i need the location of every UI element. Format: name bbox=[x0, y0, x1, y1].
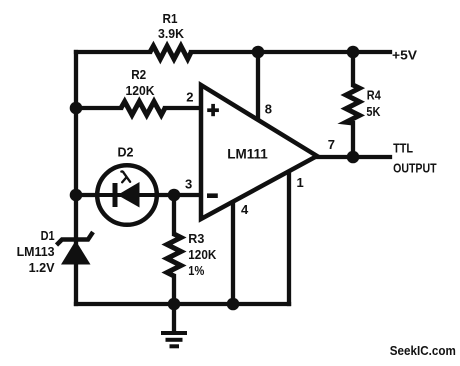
wire left vertical bus bbox=[74, 52, 78, 304]
svg-text:D1: D1 bbox=[41, 228, 55, 243]
svg-text:R3: R3 bbox=[188, 231, 204, 246]
svg-text:+5V: +5V bbox=[392, 48, 417, 63]
junction node R4 / output bbox=[347, 151, 360, 164]
wire pin 4 vertical bbox=[231, 200, 235, 304]
op-amp U1 LM111 bbox=[201, 85, 317, 219]
wire R4 bottom stub bbox=[351, 123, 355, 157]
photodiode D2 cathode bar bbox=[113, 183, 118, 207]
ground symbol bbox=[161, 331, 187, 348]
svg-text:R4: R4 bbox=[367, 88, 382, 103]
wire pin 1 vertical bbox=[287, 171, 291, 304]
svg-text:OUTPUT: OUTPUT bbox=[393, 160, 437, 175]
svg-text:R1: R1 bbox=[163, 11, 178, 26]
wire R3 top stub bbox=[172, 195, 176, 234]
wire ground stub bbox=[172, 304, 176, 331]
resistor R1 bbox=[150, 46, 191, 59]
svg-text:R2: R2 bbox=[131, 67, 146, 82]
photodiode D2 triangle bbox=[118, 182, 140, 208]
svg-text:1.2V: 1.2V bbox=[29, 260, 55, 275]
svg-text:5K: 5K bbox=[366, 104, 381, 119]
svg-text:3.9K: 3.9K bbox=[158, 26, 185, 41]
zener diode D1 triangle bbox=[61, 241, 91, 265]
junction node pin 4 / ground rail bbox=[227, 298, 240, 311]
zener diode D1 cathode bar bbox=[57, 232, 94, 245]
svg-text:TTL: TTL bbox=[393, 141, 413, 156]
wire top rail left segment bbox=[76, 50, 150, 54]
svg-text:D2: D2 bbox=[118, 145, 134, 160]
wire bottom rail bbox=[76, 302, 289, 306]
wire R2 row to pin 2 bbox=[165, 106, 201, 110]
resistor R3 bbox=[167, 234, 181, 276]
junction node R3 / ground rail bbox=[168, 298, 181, 311]
junction node R2 / left bus bbox=[70, 102, 83, 115]
svg-text:8: 8 bbox=[265, 101, 272, 116]
svg-text:LM111: LM111 bbox=[227, 146, 268, 162]
svg-text:7: 7 bbox=[328, 137, 335, 152]
wire R3 bottom stub bbox=[172, 276, 176, 304]
junction node R4 / top rail bbox=[347, 46, 360, 59]
op-amp plus input marker bbox=[207, 104, 219, 116]
svg-text:1%: 1% bbox=[188, 263, 204, 278]
wire pin 8 vertical bbox=[256, 52, 260, 119]
svg-text:120K: 120K bbox=[188, 247, 217, 262]
wire R2 row left bbox=[76, 106, 121, 110]
wire output pin 7 bbox=[317, 155, 390, 159]
svg-text:3: 3 bbox=[185, 176, 192, 191]
photodiode D2 circle bbox=[97, 165, 157, 225]
svg-text:SeekIC.com: SeekIC.com bbox=[390, 344, 456, 358]
svg-text:4: 4 bbox=[241, 202, 249, 217]
svg-text:1: 1 bbox=[297, 175, 304, 190]
junction node pin 3 / R3 bbox=[168, 189, 181, 202]
wire D2 row to pin 3 bbox=[76, 193, 201, 197]
junction node pin 8 / top rail bbox=[252, 46, 265, 59]
wire R4 top stub bbox=[351, 52, 355, 85]
svg-text:LM113: LM113 bbox=[17, 244, 55, 259]
junction node D2 anode / left bus bbox=[70, 189, 83, 202]
op-amp minus input marker bbox=[207, 193, 218, 198]
svg-text:2: 2 bbox=[186, 90, 193, 105]
resistor R4 bbox=[346, 85, 360, 123]
resistor R2 bbox=[121, 102, 165, 116]
wire top rail right segment to +5V bbox=[191, 50, 390, 54]
photodiode D2 lambda symbol bbox=[121, 171, 130, 182]
svg-text:120K: 120K bbox=[126, 83, 156, 98]
photodiode D2 internal wire bbox=[99, 193, 155, 197]
